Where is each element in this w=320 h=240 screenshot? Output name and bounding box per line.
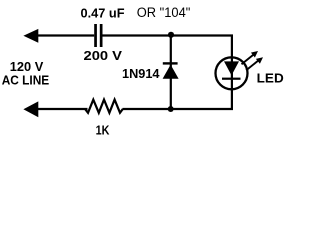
node: bottom junction dot — [168, 106, 174, 112]
LED light arrow 1 — [242, 51, 259, 64]
svg-text:200 V: 200 V — [84, 48, 123, 63]
diode D1 triangle — [163, 65, 179, 79]
diode D1 1N914 vertical wire — [170, 35, 172, 109]
svg-text:0.47 uF: 0.47 uF — [81, 6, 125, 21]
diode D1 cathode bar — [163, 62, 178, 64]
wire: bottom left (arrow to resistor) — [38, 108, 88, 110]
LED light arrow 2 — [246, 57, 263, 70]
LED circle — [216, 57, 248, 89]
svg-text:AC LINE: AC LINE — [2, 73, 50, 88]
AC line terminal arrow (bottom) — [23, 101, 38, 117]
svg-text:1K: 1K — [96, 123, 110, 138]
AC line terminal arrow (top) — [23, 29, 38, 43]
capacitor C1 left plate — [94, 24, 97, 47]
capacitor C1 right plate — [100, 24, 103, 47]
LED triangle — [224, 61, 239, 75]
wire: top left (arrow to capacitor) — [38, 34, 95, 36]
LED cathode bar — [222, 78, 241, 80]
svg-text:OR "104": OR "104" — [137, 5, 191, 20]
resistor R1 1K zigzag — [85, 100, 123, 113]
wire: bottom right (resistor to LED corner) — [123, 108, 234, 110]
node: top junction dot — [168, 32, 174, 38]
svg-text:LED: LED — [257, 71, 284, 86]
wire: LED branch vertical (top corner to bottom corner) — [231, 36, 233, 110]
wire: top right (capacitor to LED corner) — [103, 34, 234, 36]
svg-text:1N914: 1N914 — [122, 66, 160, 81]
